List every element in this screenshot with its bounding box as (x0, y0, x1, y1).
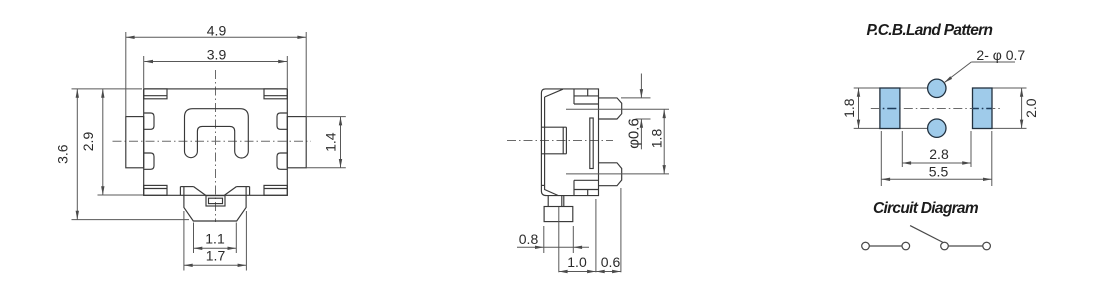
svg-text:1.1: 1.1 (205, 231, 225, 247)
svg-text:P.C.B.Land Pattern: P.C.B.Land Pattern (867, 22, 993, 39)
svg-text:Circuit Diagram: Circuit Diagram (873, 200, 979, 217)
side top terminal block (574, 89, 599, 104)
svg-text:2- φ 0.7: 2- φ 0.7 (976, 47, 1025, 63)
svg-text:2.8: 2.8 (929, 146, 949, 162)
dimension 1.8 (side view) (566, 109, 669, 174)
side foot neck (548, 196, 564, 207)
side terminal pin top (599, 98, 622, 119)
svg-text:2.0: 2.0 (1023, 98, 1039, 118)
extension lines through hole centers (854, 88, 1027, 128)
svg-text:1.8: 1.8 (841, 98, 857, 118)
inner bump left-lower (144, 153, 154, 169)
terminal tab top-left (144, 89, 167, 99)
terminal tab bottom-right (264, 185, 287, 195)
dimension 2.8 (902, 131, 971, 167)
wire node1-node2 (869, 245, 902, 247)
side foot block (544, 207, 573, 222)
dimension 5.5 (881, 131, 992, 186)
svg-text:1.4: 1.4 (323, 132, 339, 152)
centerline horizontal (side view) (507, 140, 613, 142)
terminal node 2 (902, 242, 910, 250)
inner bump right-upper (277, 113, 287, 129)
svg-text:3.6: 3.6 (55, 144, 71, 164)
inner bump right-lower (277, 153, 287, 169)
leader 2-phi0.7 (944, 47, 1025, 83)
dimension 1.4 (306, 117, 346, 168)
svg-text:1.0: 1.0 (567, 254, 587, 270)
dimension 4.9 (126, 23, 306, 117)
dimension 1.0 (559, 199, 596, 273)
dimension 3.9 (144, 47, 288, 89)
svg-text:2.9: 2.9 (80, 132, 96, 152)
side contact plate (590, 118, 593, 169)
side tab left (126, 117, 144, 168)
terminal node 4 (983, 242, 991, 250)
pad right (973, 88, 993, 129)
hole lower (928, 119, 946, 137)
switch arm (910, 226, 943, 243)
svg-text:3.9: 3.9 (207, 47, 227, 63)
terminal tab top-right (264, 89, 287, 99)
centerline horizontal (top view) (113, 140, 312, 142)
plunger wing right (224, 187, 250, 196)
svg-text:1.7: 1.7 (206, 248, 226, 264)
dimension 2.9 (80, 89, 143, 195)
plunger tip inner rect (209, 198, 223, 203)
hole upper (928, 79, 946, 97)
dimension 1.8 (land pattern) (841, 88, 860, 128)
dimension 0.6 (596, 188, 621, 273)
side bottom terminal block (574, 180, 599, 195)
terminal node 1 (862, 242, 870, 250)
center contact cutout (staple shape) (185, 109, 249, 158)
dimension 2.0 (1020, 88, 1039, 128)
dimension 1.7 (184, 211, 247, 271)
plunger wing left (180, 187, 206, 196)
plunger trapezoid (184, 195, 246, 221)
pad left (880, 88, 900, 129)
svg-text:φ0.6: φ0.6 (626, 118, 643, 149)
switch body outline (top view) (144, 89, 288, 195)
svg-text:0.8: 0.8 (519, 231, 539, 247)
side tab right (287, 117, 306, 168)
dimension 1.1 (194, 223, 237, 254)
svg-text:0.6: 0.6 (601, 254, 621, 270)
centerline vertical (top view) (215, 70, 217, 222)
terminal tab bottom-left (144, 185, 167, 195)
side plunger square (541, 127, 566, 154)
dimension 0.8 (517, 226, 589, 253)
inner bump left-upper (144, 113, 154, 129)
side body outline (541, 89, 598, 196)
svg-text:1.8: 1.8 (649, 129, 665, 149)
dimension phi 0.6 (621, 74, 651, 150)
dimension 3.6 (55, 89, 190, 220)
side body inner wall (541, 89, 563, 195)
terminal node 3 (941, 242, 949, 250)
svg-text:5.5: 5.5 (929, 164, 949, 180)
side terminal pin bottom (599, 163, 622, 186)
svg-text:4.9: 4.9 (207, 23, 227, 39)
wire node3-node4 (948, 245, 982, 247)
plunger tip outer rect (206, 196, 225, 206)
